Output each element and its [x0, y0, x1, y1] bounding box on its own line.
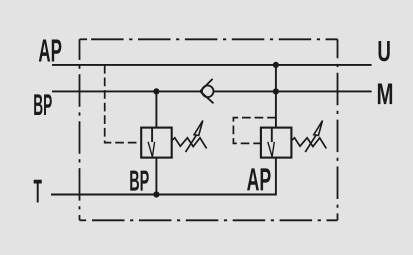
junction dot valve1/BP — [153, 88, 159, 94]
wire valve 2 top port — [275, 65, 277, 128]
pilot line to valve 1 (dashed, from AP line) — [105, 65, 142, 143]
wire valve 1 bottom port — [155, 158, 157, 195]
wire BP/M line left of check valve — [52, 90, 200, 92]
junction dot valve2/AP — [273, 62, 279, 68]
svg-text:BP: BP — [129, 166, 149, 198]
svg-text:T: T — [34, 173, 42, 210]
dash-dot enclosure border bottom — [92, 219, 338, 221]
dash-dot enclosure border left — [79, 39, 81, 220]
wire BP/M line right of check valve — [214, 90, 372, 92]
wire valve 1 top port — [155, 91, 157, 127]
check valve ball — [202, 86, 214, 98]
svg-text:AP: AP — [38, 33, 62, 69]
relief valve V2 (AP) — [261, 121, 326, 158]
check valve seat — [200, 79, 213, 103]
dash-dot enclosure border right — [337, 39, 339, 220]
junction dot valve2/BP — [273, 88, 279, 94]
svg-text:M: M — [377, 78, 394, 111]
svg-text:U: U — [377, 36, 391, 68]
dash-dot enclosure border top corner stub — [80, 38, 88, 40]
wire AP/U line — [52, 64, 372, 66]
dash-dot enclosure border bottom corner stub — [80, 219, 87, 221]
wire T line with riser to valve 2 bottom — [51, 158, 276, 195]
junction dot valve1/T — [153, 191, 159, 197]
relief valve V1 (BP) — [141, 121, 206, 158]
svg-text:AP: AP — [247, 161, 272, 197]
svg-text:BP: BP — [33, 89, 52, 122]
dash-dot enclosure border top — [91, 38, 337, 40]
pilot line to valve 2 (dashed, from its inlet) — [233, 118, 276, 144]
